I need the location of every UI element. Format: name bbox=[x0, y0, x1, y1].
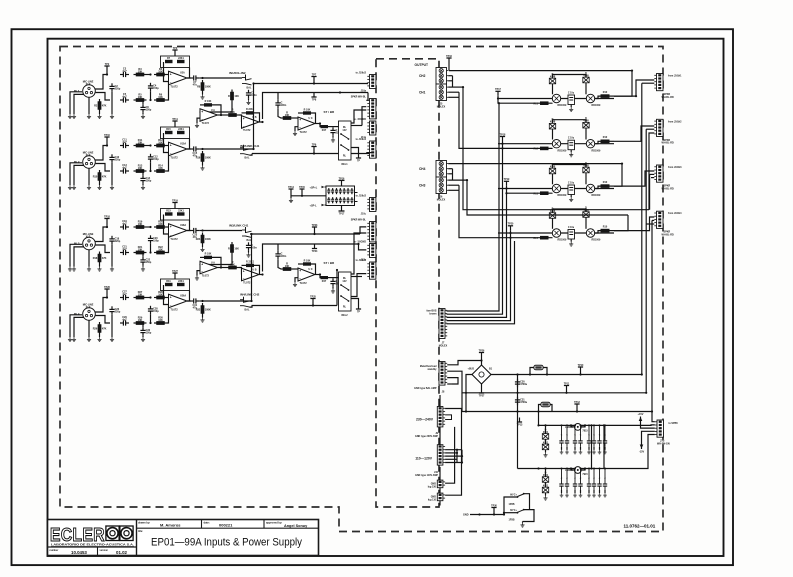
wire cap 561.5 gnd bbox=[561, 447, 563, 450]
wire C10 to ground bbox=[111, 163, 113, 185]
svg-text:CH3: CH3 bbox=[419, 184, 426, 188]
feedback network box U2A bbox=[161, 56, 190, 68]
wire XLR IN 2 pin3 down bbox=[88, 168, 90, 185]
svg-text:+SP-L: +SP-L bbox=[310, 205, 318, 208]
wire fuse F2 taps bbox=[539, 405, 542, 412]
svg-text:TP11: TP11 bbox=[172, 118, 178, 121]
wire power rail 3 bbox=[462, 411, 652, 413]
resistor mixer feedback b bbox=[246, 111, 254, 114]
relay coil RL3A bbox=[552, 184, 560, 192]
wire TP12 stem bbox=[576, 409, 578, 412]
wire cap 605 gnd bbox=[604, 447, 606, 450]
wire ch4 out to bus bbox=[203, 300, 252, 302]
svg-text:-15V: -15V bbox=[639, 451, 645, 454]
svg-text:TP13: TP13 bbox=[517, 424, 523, 427]
svg-text:WH-BL-RD: WH-BL-RD bbox=[662, 234, 674, 237]
wire diode links bbox=[552, 174, 554, 185]
svg-text:7915: 7915 bbox=[582, 473, 588, 476]
resistor R fb REL1 bbox=[303, 111, 311, 114]
svg-text:WH-BL-RD: WH-BL-RD bbox=[662, 96, 674, 99]
svg-text:TL072: TL072 bbox=[170, 86, 178, 89]
wire linkbus1 to edge conn bbox=[366, 152, 372, 155]
svg-text:150p: 150p bbox=[153, 240, 159, 243]
wire mixerB1 up bbox=[263, 93, 277, 120]
connector J7 relay supply bbox=[439, 309, 445, 339]
svg-text:10K: 10K bbox=[234, 248, 239, 251]
svg-text:TP: TP bbox=[357, 160, 360, 163]
wire cap 575 gnd bbox=[574, 490, 576, 493]
wire bus1 tail bbox=[351, 110, 366, 123]
wire op-amp output bbox=[187, 77, 191, 79]
svg-text:BAL: BAL bbox=[247, 87, 252, 90]
ground C14 bbox=[141, 185, 145, 190]
wire link jack cap bbox=[248, 251, 250, 253]
wire link jack cap bbox=[248, 98, 250, 100]
ground IN 4 pin3 bbox=[87, 337, 91, 342]
wire return rail C bbox=[650, 173, 655, 175]
op-amp mixer B bbox=[242, 116, 260, 129]
wire link bus IN4/LINK CH2 bbox=[250, 306, 253, 308]
svg-text:GND type 230V AMP: GND type 230V AMP bbox=[415, 435, 438, 438]
svg-text:R47: R47 bbox=[322, 129, 327, 132]
svg-text:U18A: U18A bbox=[180, 224, 186, 227]
connector J left-board edge at y=197.5 bbox=[370, 198, 376, 212]
svg-text:12V: 12V bbox=[342, 129, 347, 132]
wire TP10 stem bbox=[106, 142, 108, 146]
svg-text:100n: 100n bbox=[281, 104, 287, 107]
dashed input-board boundary bbox=[60, 47, 663, 532]
relay REL1 bbox=[339, 121, 352, 160]
svg-text:+: + bbox=[170, 225, 172, 229]
wire TP2 stem bbox=[106, 71, 108, 75]
svg-text:−: − bbox=[243, 277, 245, 281]
relay coil RL1A bbox=[552, 94, 560, 102]
svg-text:to J10b/4: to J10b/4 bbox=[356, 259, 367, 262]
wire TP11 stem bbox=[566, 390, 568, 393]
connector J10b block 4 bbox=[657, 211, 664, 228]
svg-text:TP19: TP19 bbox=[504, 178, 510, 181]
ground C10 bbox=[110, 185, 114, 190]
wire TP row stem bbox=[502, 141, 504, 144]
wire TP7 stem bbox=[313, 81, 315, 84]
wire cap 605 gnd bbox=[604, 490, 606, 493]
wire R2 to ground bbox=[99, 112, 101, 114]
svg-text:ST / BR: ST / BR bbox=[324, 110, 336, 114]
svg-text:MOLEX: MOLEX bbox=[439, 344, 448, 347]
svg-text:TP26: TP26 bbox=[479, 349, 485, 352]
capacitor C78151 filter bbox=[565, 440, 569, 442]
wire vertical bus tie pair1 bbox=[253, 84, 255, 150]
svg-text:TL072: TL072 bbox=[243, 282, 251, 285]
wire op-amp out bbox=[315, 123, 320, 125]
wire R to op-amp bbox=[294, 268, 299, 270]
wire bottom row to op-amp inverting bbox=[167, 153, 169, 172]
wire TP16 stem bbox=[448, 63, 450, 71]
ground R32 bbox=[202, 316, 204, 318]
fuse F2 rail3 bbox=[541, 402, 550, 406]
wire feedback tap bbox=[164, 215, 169, 235]
wire output node bbox=[199, 300, 202, 302]
capacitor C row 2 bbox=[568, 140, 575, 150]
link jack J2 bbox=[242, 77, 246, 79]
svg-text:22K1: 22K1 bbox=[178, 57, 184, 60]
ground IN 4 shield a bbox=[68, 337, 72, 342]
capacitor C78157 filter bbox=[603, 440, 607, 442]
ground diode chain 7815 bbox=[543, 452, 547, 457]
svg-text:RD1009: RD1009 bbox=[558, 104, 567, 107]
wire R26 to ground bbox=[99, 335, 101, 337]
svg-text:CH2: CH2 bbox=[419, 74, 426, 78]
relay coil RL2A bbox=[552, 140, 560, 148]
svg-text:WH-BN-GN: WH-BN-GN bbox=[657, 442, 670, 445]
wire XLR IN 4 to input node bbox=[95, 298, 107, 313]
svg-text:TP: TP bbox=[357, 311, 360, 314]
ground IN 2 shield b bbox=[72, 185, 76, 190]
svg-text:TP20: TP20 bbox=[508, 223, 514, 226]
svg-text:60°C+: 60°C+ bbox=[510, 493, 517, 496]
svg-text:TL072: TL072 bbox=[299, 131, 307, 134]
svg-text:−: − bbox=[299, 277, 301, 281]
svg-text:R10: R10 bbox=[93, 176, 98, 179]
ground C22 bbox=[141, 267, 145, 272]
relay coil RL1B bbox=[586, 94, 594, 102]
wire TP row stem bbox=[497, 96, 499, 99]
ground R18 bbox=[97, 267, 101, 272]
feedback network box U26A bbox=[161, 279, 190, 291]
connector J11 gnd lug 230 bbox=[437, 480, 443, 488]
svg-text:+: + bbox=[201, 110, 203, 114]
wire row2 out to conn bbox=[620, 435, 655, 469]
wire bundle dots bbox=[498, 102, 500, 104]
svg-text:1P3B: 1P3B bbox=[509, 518, 515, 521]
svg-text:U C: U C bbox=[309, 117, 313, 120]
wire ch2 out to bus bbox=[203, 148, 254, 150]
wire TP row stem bbox=[510, 230, 512, 233]
wire cap 589 gnd bbox=[588, 447, 590, 450]
svg-text:WH-BL-RD: WH-BL-RD bbox=[662, 187, 674, 190]
svg-text:approved by:: approved by: bbox=[266, 520, 282, 524]
svg-text:TP18: TP18 bbox=[500, 133, 506, 136]
wire XLR IN 3 pin3 down bbox=[88, 250, 90, 267]
wire cap 580.5 gnd bbox=[580, 447, 582, 450]
wire return rail B bbox=[646, 128, 654, 130]
svg-text:10.0453: 10.0453 bbox=[71, 550, 87, 555]
ground R10 bbox=[97, 185, 101, 190]
svg-text:22K1: 22K1 bbox=[178, 128, 184, 131]
connector J7B +-15V bbox=[657, 420, 664, 437]
svg-text:+: + bbox=[299, 269, 301, 273]
wire XLR IN 3 shield bbox=[74, 247, 84, 267]
wire XLR IN 2 to input node bbox=[95, 146, 107, 161]
connector J left-board edge at y=74.5 bbox=[370, 75, 376, 89]
svg-text:U A: U A bbox=[211, 261, 215, 264]
resistor R row 3 out bbox=[601, 184, 610, 188]
svg-text:R 10K: R 10K bbox=[205, 253, 212, 256]
wire diode chain 7815 bbox=[545, 425, 547, 433]
svg-text:R10: R10 bbox=[603, 181, 608, 184]
wire XLR IN 1 shield bbox=[74, 94, 84, 114]
wire C22 leads bbox=[142, 253, 144, 257]
resistor R out REL1 bbox=[321, 125, 329, 128]
svg-text:+15V: +15V bbox=[638, 413, 644, 416]
svg-text:BAL: BAL bbox=[245, 309, 250, 312]
wire CH4 pins right bbox=[448, 163, 622, 165]
wire row1 out to conn bbox=[620, 424, 655, 427]
svg-text:100n: 100n bbox=[251, 94, 257, 97]
wire mixer B out bbox=[259, 274, 263, 276]
wire inter-row vertical b bbox=[603, 425, 605, 468]
wire relay1 to edge conn a bbox=[362, 107, 366, 126]
svg-text:R 22K1: R 22K1 bbox=[246, 261, 255, 264]
wire CH3 pins right bbox=[448, 179, 467, 181]
jumper matrix block bbox=[326, 186, 355, 206]
title block frame bbox=[48, 520, 319, 556]
ground IN 1 pin3 bbox=[87, 114, 91, 119]
wire op-amp output bbox=[187, 148, 191, 150]
wire gnd chain mid3 bbox=[439, 488, 441, 493]
wire linkbus2 tail bbox=[336, 270, 338, 306]
svg-text:TP25: TP25 bbox=[310, 295, 316, 298]
wire mixer A out bbox=[218, 114, 222, 116]
wire relay row 4 main bbox=[498, 232, 614, 234]
feedback network box U10A bbox=[161, 127, 190, 139]
wire cap to bus bbox=[277, 93, 279, 100]
wire feedback tap bbox=[164, 133, 169, 153]
wire busB2 to edge connector bbox=[359, 244, 367, 250]
wire cap 594 gnd bbox=[593, 447, 595, 450]
test point TP27 bridge bottom bbox=[481, 389, 483, 394]
svg-text:to J10b/2: to J10b/2 bbox=[356, 71, 367, 74]
svg-text:−: − bbox=[201, 270, 203, 274]
wire C4 lower lead bbox=[150, 91, 152, 100]
svg-text:SPKR WH-BL: SPKR WH-BL bbox=[351, 95, 367, 98]
svg-text:BAL: BAL bbox=[245, 157, 250, 160]
ground C18 bbox=[110, 267, 114, 272]
svg-text:IN1/IN1+IN2: IN1/IN1+IN2 bbox=[229, 71, 246, 75]
wire op-amp out bbox=[315, 274, 320, 276]
wire relay row 2 main bbox=[498, 143, 614, 145]
svg-text:J10a: J10a bbox=[361, 90, 367, 93]
svg-text:R 10K: R 10K bbox=[304, 259, 311, 262]
wire to op-amp U26 non-inverting bbox=[167, 297, 169, 299]
wire TP25 stem bbox=[312, 303, 314, 306]
wire TP10 stem bbox=[580, 372, 582, 375]
capacitor C78150 filter bbox=[559, 440, 563, 442]
svg-text:U B: U B bbox=[252, 268, 256, 271]
wire row2 input from stack bbox=[518, 468, 539, 470]
bridge rectifier B1 bbox=[472, 365, 491, 384]
wire row1 input from fuse bbox=[538, 412, 540, 426]
capacitor C79151 filter bbox=[565, 483, 569, 485]
ground C30 bbox=[141, 337, 145, 342]
svg-text:number: number bbox=[50, 549, 59, 552]
svg-text:SPKR WH-BL: SPKR WH-BL bbox=[351, 218, 367, 221]
svg-text:EP01—99A Inputs & Power Supply: EP01—99A Inputs & Power Supply bbox=[151, 536, 303, 548]
svg-text:000221: 000221 bbox=[219, 523, 233, 528]
svg-text:title:: title: bbox=[138, 530, 143, 533]
svg-text:R47: R47 bbox=[322, 280, 327, 283]
capacitor C row 3 bbox=[568, 185, 575, 195]
wire XLR IN 4 shield bbox=[74, 317, 84, 337]
wire cap 599.5 gnd bbox=[599, 447, 601, 450]
connector J left-board edge at y=262 bbox=[370, 262, 376, 279]
wire reg taps bbox=[571, 469, 574, 471]
resistor R fb REL2 bbox=[303, 262, 311, 265]
svg-text:TL072: TL072 bbox=[202, 275, 210, 278]
wire bus A2 bbox=[277, 92, 369, 94]
wire busA2 to edge connector bbox=[366, 93, 368, 101]
op-amp mixer B bbox=[242, 268, 260, 281]
svg-text:+: + bbox=[299, 118, 301, 122]
svg-text:R: R bbox=[228, 248, 230, 251]
wire edge cluster2 tail bbox=[351, 274, 366, 297]
wire TP19 to feedback box bbox=[174, 207, 176, 209]
svg-text:MOLEX: MOLEX bbox=[437, 105, 446, 108]
svg-text:GND type 110V AMP: GND type 110V AMP bbox=[415, 474, 438, 477]
wire thermal left rail bbox=[504, 497, 518, 515]
svg-text:TL072: TL072 bbox=[243, 129, 251, 132]
wire CH3 long bus down bbox=[467, 180, 628, 215]
wire bottom row to op-amp inverting bbox=[167, 305, 169, 324]
ground IN 3 pin3 bbox=[87, 267, 91, 272]
wire relay row 1 main bbox=[498, 98, 614, 100]
svg-text:R16: R16 bbox=[196, 157, 201, 160]
wire cap to bus bbox=[277, 244, 279, 251]
capacitor C79156 filter bbox=[597, 483, 601, 485]
wire cap row gnd bbox=[570, 195, 572, 198]
wire relay2 out to edge conn bbox=[351, 233, 366, 274]
wire output node bbox=[199, 77, 202, 79]
svg-text:110—120V: 110—120V bbox=[415, 456, 433, 460]
wire cap 580.5 gnd bbox=[580, 490, 582, 493]
capacitor C79153 filter bbox=[578, 483, 582, 485]
svg-text:RL: RL bbox=[343, 306, 347, 309]
arrow -15V bbox=[641, 441, 643, 449]
wire bridge bottom bbox=[481, 384, 483, 389]
svg-text:+BUS: +BUS bbox=[468, 368, 475, 371]
wire C14 leads bbox=[142, 171, 144, 175]
wire feedback to output bbox=[187, 139, 190, 150]
wire channel out to link jack bbox=[203, 230, 243, 232]
svg-text:R: R bbox=[228, 95, 230, 98]
svg-text:R15: R15 bbox=[166, 128, 171, 131]
wire return rail D bbox=[652, 219, 654, 221]
ground IN 1 shield a bbox=[68, 114, 72, 119]
svg-text:100K: 100K bbox=[205, 309, 211, 312]
svg-text:C 10u: C 10u bbox=[568, 93, 575, 95]
wire fuse F1 taps bbox=[530, 368, 534, 375]
wire link bus1 bbox=[252, 153, 372, 155]
wire feedback to output bbox=[187, 220, 190, 231]
wire bundle relay-to-power-connector bbox=[447, 103, 500, 311]
svg-text:CH4: CH4 bbox=[419, 167, 426, 171]
wire top row node bbox=[147, 74, 151, 76]
ground R26 bbox=[97, 337, 101, 342]
wire bottom row to op-amp inverting bbox=[167, 234, 169, 253]
connector J left-board edge at y=221.5 bbox=[370, 222, 376, 242]
svg-text:TP10: TP10 bbox=[104, 134, 110, 137]
wire mixer A out bbox=[218, 267, 222, 269]
svg-text:TL072: TL072 bbox=[299, 282, 307, 285]
connector J left-board edge at y=98.5 bbox=[370, 99, 376, 119]
svg-text:U2A: U2A bbox=[180, 71, 185, 74]
wire relay3 out to block3 bbox=[614, 171, 654, 186]
wire TP27 to feedback box bbox=[174, 278, 176, 280]
wire C28 lower lead bbox=[150, 314, 152, 323]
fuse F1 rail1 bbox=[534, 365, 543, 369]
ECLER logo bbox=[50, 524, 134, 547]
svg-text:IN 1: IN 1 bbox=[74, 89, 80, 93]
ground IN 2 shield a bbox=[68, 185, 72, 190]
svg-text:version: version bbox=[100, 549, 109, 552]
capacitor C78152 filter bbox=[573, 440, 577, 442]
svg-text:TP16: TP16 bbox=[446, 55, 452, 58]
svg-text:RD1009: RD1009 bbox=[592, 104, 601, 107]
wire TP row stem bbox=[506, 186, 508, 189]
ground diode chain 7915 bbox=[543, 496, 547, 501]
wire cap stack rail bbox=[517, 375, 519, 469]
wire right loop vertical a bbox=[445, 427, 455, 483]
svg-text:22K1: 22K1 bbox=[178, 280, 184, 283]
relay coil RL3B bbox=[586, 184, 594, 192]
svg-text:U26A: U26A bbox=[180, 294, 186, 297]
wire diode links bbox=[552, 129, 554, 140]
resistor R out REL2 bbox=[321, 276, 329, 279]
wire cap out gnd bbox=[332, 287, 334, 289]
wire relay row 3 main bbox=[498, 188, 614, 190]
svg-text:TP7: TP7 bbox=[312, 73, 317, 76]
wire GND node bbox=[470, 514, 504, 516]
relay coil RL2B bbox=[586, 140, 594, 148]
test point TP8 bus A2 bbox=[313, 93, 315, 98]
wire link bus IN2/LINK CH1 bbox=[250, 154, 253, 156]
svg-text:TP27: TP27 bbox=[479, 395, 485, 398]
test point relay REL2 bbox=[358, 305, 360, 310]
capacitor C78155 filter bbox=[592, 440, 596, 442]
capacitor C79157 filter bbox=[603, 483, 607, 485]
svg-text:standby: standby bbox=[427, 368, 437, 371]
svg-text:from J10b/2: from J10b/2 bbox=[668, 120, 682, 123]
wire op-amp output bbox=[187, 300, 191, 302]
wire bus A1 bbox=[254, 83, 369, 85]
svg-text:11.0762—01.01: 11.0762—01.01 bbox=[624, 524, 656, 529]
svg-text:ST / BR: ST / BR bbox=[324, 261, 336, 265]
wire mid loop vertical bbox=[456, 450, 458, 463]
svg-text:−: − bbox=[170, 81, 172, 85]
wire output node bbox=[199, 230, 202, 232]
op-amp mixer A bbox=[200, 109, 218, 122]
wire CH2 pins right bbox=[449, 70, 632, 72]
test point TP24 bus B2 bbox=[314, 244, 316, 249]
wire TP11 to feedback box bbox=[174, 126, 176, 128]
svg-text:LABORATORIO DE ELECTRO-ACUSTIC: LABORATORIO DE ELECTRO-ACUSTICA S.A. bbox=[51, 543, 134, 547]
svg-text:100K: 100K bbox=[205, 157, 211, 160]
dashed inter-board channel bbox=[376, 59, 439, 507]
svg-text:R 10K: R 10K bbox=[304, 108, 311, 111]
wire output node bbox=[199, 148, 202, 150]
op-amp U18A input stage bbox=[169, 224, 188, 238]
wire arrow-15 tie bbox=[642, 431, 655, 441]
resistor R row 2 out bbox=[601, 140, 610, 144]
wire CH1 pins right bbox=[448, 86, 463, 88]
ground R16 bbox=[202, 164, 204, 166]
wire busA1 to edge connector bbox=[366, 83, 368, 85]
svg-text:100K: 100K bbox=[205, 86, 211, 89]
svg-text:to -15/GND: to -15/GND bbox=[354, 118, 367, 121]
link jack J4 bbox=[242, 229, 246, 231]
wire relay1 to edge conn b bbox=[361, 125, 363, 127]
svg-text:+: + bbox=[170, 143, 172, 147]
